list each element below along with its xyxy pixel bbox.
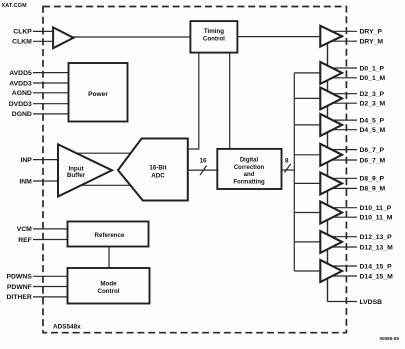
- branch to D12_13: [294, 241, 321, 243]
- svg-text:16-Bit: 16-Bit: [149, 164, 166, 171]
- LVDSB vertical bus: [327, 42, 329, 302]
- LVDS buffer D0_1: [320, 62, 342, 84]
- branch to D4_5: [294, 124, 321, 126]
- wire AVDD3: [33, 82, 69, 84]
- svg-text:D2_3_P: D2_3_P: [360, 91, 385, 98]
- svg-text:DVDD3: DVDD3: [9, 101, 32, 108]
- svg-text:Buffer: Buffer: [67, 172, 86, 179]
- svg-text:Digital: Digital: [240, 157, 259, 163]
- wire PDWNS: [33, 275, 68, 277]
- Power box: [69, 63, 128, 122]
- wire AGND: [33, 92, 69, 94]
- svg-text:D10_11_P: D10_11_P: [360, 205, 392, 212]
- LVDS buffer DRY: [320, 26, 342, 47]
- wire D8_9_P: [330, 177, 357, 179]
- wire D2_3_M: [330, 102, 357, 104]
- svg-text:DITHER: DITHER: [6, 294, 31, 301]
- svg-text:XAT.COM: XAT.COM: [2, 3, 28, 9]
- LVDS buffer D14_15: [320, 260, 342, 282]
- wire digital correction to output bus (8-bit): [282, 169, 295, 171]
- svg-text:Reference: Reference: [95, 232, 125, 239]
- wire ADC to digital correction (16-bit bus): [188, 169, 218, 171]
- wire D6_7_M: [330, 159, 357, 161]
- svg-text:REF: REF: [18, 237, 32, 244]
- wire AVDD5: [33, 72, 69, 74]
- wire DVDD3: [33, 103, 69, 105]
- Timing Control box: [190, 21, 237, 52]
- svg-text:D0_1_P: D0_1_P: [360, 65, 385, 72]
- wire REF: [33, 239, 68, 241]
- svg-text:and: and: [244, 172, 255, 178]
- wire clock buffer to timing control: [72, 36, 190, 38]
- svg-text:D4_5_M: D4_5_M: [360, 127, 386, 134]
- wire timing control to DRY buffer: [237, 36, 321, 38]
- LVDS buffer D4_5: [320, 114, 342, 136]
- wire D2_3_P: [330, 93, 357, 95]
- svg-text:D0_1_M: D0_1_M: [360, 75, 386, 82]
- svg-text:16: 16: [200, 158, 208, 165]
- branch to D14_15: [294, 270, 321, 272]
- bus slash 16: [200, 166, 207, 176]
- svg-text:D10_11_M: D10_11_M: [360, 215, 393, 222]
- branch to D10_11: [294, 212, 321, 214]
- svg-text:AGND: AGND: [12, 90, 32, 97]
- svg-text:VCM: VCM: [17, 226, 32, 233]
- Digital Correction and Formatting box: [217, 149, 281, 189]
- svg-text:AVDD3: AVDD3: [9, 80, 32, 87]
- wire DITHER: [33, 296, 68, 298]
- wire PDWNF: [33, 286, 68, 288]
- svg-text:PDWNS: PDWNS: [6, 274, 32, 281]
- branch to D6_7: [294, 154, 321, 156]
- LVDS buffer D6_7: [320, 144, 342, 166]
- svg-text:D6_7_P: D6_7_P: [360, 147, 385, 154]
- svg-text:D2_3_M: D2_3_M: [360, 101, 386, 108]
- svg-text:ADC: ADC: [151, 173, 165, 180]
- svg-text:CLKP: CLKP: [13, 29, 32, 36]
- branch to D0_1: [294, 72, 321, 74]
- LVDS buffer D8_9: [320, 172, 342, 194]
- svg-text:Formatting: Formatting: [233, 180, 265, 186]
- svg-text:8: 8: [285, 158, 289, 165]
- wire D12_13_M: [330, 246, 357, 248]
- svg-text:Timing: Timing: [204, 28, 224, 35]
- svg-text:CLKM: CLKM: [12, 39, 32, 46]
- wire input buffer to ADC (P): [70, 152, 135, 154]
- branch to D2_3: [294, 97, 321, 99]
- LVDS buffer D12_13: [320, 231, 342, 253]
- wire D0_1_P: [330, 67, 357, 69]
- wire DRY_P: [330, 30, 357, 32]
- svg-text:Control: Control: [98, 288, 120, 295]
- svg-text:DGND: DGND: [12, 111, 32, 118]
- wire input buffer to ADC (M): [70, 184, 135, 186]
- wire D14_15_M: [330, 275, 357, 277]
- LVDS buffer D10_11: [320, 202, 342, 224]
- svg-text:Control: Control: [203, 36, 225, 43]
- wire DRY_M: [330, 40, 357, 42]
- svg-text:Correction: Correction: [234, 165, 265, 171]
- wire D14_15_P: [330, 265, 357, 267]
- svg-text:PDWNF: PDWNF: [7, 284, 32, 291]
- svg-text:D6_7_M: D6_7_M: [360, 157, 386, 164]
- svg-text:D4_5_P: D4_5_P: [360, 117, 385, 124]
- chip boundary (dashed): [43, 7, 346, 333]
- svg-text:Mode: Mode: [100, 281, 117, 288]
- wire D4_5_M: [330, 129, 357, 131]
- Reference box: [68, 222, 149, 247]
- svg-text:D14_15_P: D14_15_P: [360, 263, 393, 270]
- svg-text:INP: INP: [20, 157, 32, 164]
- ADC (16-bit): [118, 139, 188, 201]
- wire D12_13_P: [330, 236, 357, 238]
- LVDS buffer D2_3: [320, 87, 342, 109]
- wire D8_9_M: [330, 187, 357, 189]
- wire reference to mode control: [108, 247, 110, 269]
- svg-text:D14_15_M: D14_15_M: [360, 273, 394, 280]
- bus slash 8: [284, 164, 291, 173]
- clock input buffer: [53, 27, 73, 48]
- wire timing control to digital correction: [229, 53, 231, 149]
- wire CLKM: [33, 40, 55, 42]
- output bus vertical: [293, 73, 295, 271]
- svg-text:D12_13_M: D12_13_M: [360, 244, 394, 251]
- svg-text:ADS548x: ADS548x: [53, 323, 81, 330]
- wire D10_11_M: [330, 216, 357, 218]
- branch to D8_9: [294, 182, 321, 184]
- svg-text:00085-05: 00085-05: [380, 336, 400, 341]
- wire D10_11_P: [330, 207, 357, 209]
- wire CLKP: [33, 30, 55, 32]
- wire D6_7_P: [330, 149, 357, 151]
- svg-text:INM: INM: [19, 178, 32, 185]
- svg-text:Power: Power: [88, 91, 108, 98]
- svg-text:DRY_P: DRY_P: [360, 29, 383, 36]
- wire VCM: [33, 228, 68, 230]
- Mode Control box: [68, 268, 150, 304]
- svg-text:D8_9_P: D8_9_P: [360, 176, 385, 183]
- svg-text:D12_13_P: D12_13_P: [360, 234, 393, 241]
- wire D4_5_P: [330, 119, 357, 121]
- wire LVDSB: [328, 301, 358, 303]
- wire DGND: [33, 113, 69, 115]
- svg-text:LVDSB: LVDSB: [360, 299, 383, 306]
- input buffer amp: [58, 144, 112, 196]
- wire timing control to ADC: [188, 53, 199, 149]
- wire INM: [33, 180, 59, 182]
- wire D0_1_M: [330, 77, 357, 79]
- svg-text:D8_9_M: D8_9_M: [360, 186, 386, 193]
- svg-text:DRY_M: DRY_M: [360, 39, 384, 46]
- svg-text:AVDD5: AVDD5: [9, 70, 32, 77]
- wire INP: [33, 159, 59, 161]
